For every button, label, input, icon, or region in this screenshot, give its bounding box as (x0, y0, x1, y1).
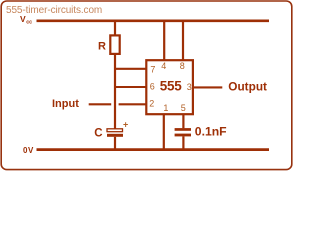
wire output from pin 3 (193, 86, 222, 88)
capacitor C bottom plate (107, 134, 123, 137)
svg-text:5: 5 (181, 103, 186, 113)
svg-text:cc: cc (26, 19, 32, 25)
wire pin 8 lead (182, 21, 184, 60)
capacitor C top plate (107, 129, 123, 132)
net Vcc label (20, 14, 32, 25)
svg-text:R: R (98, 40, 106, 52)
svg-text:Output: Output (228, 80, 267, 94)
wire input (89, 103, 112, 105)
wire capacitor C2 bottom lead (182, 136, 184, 149)
svg-text:555: 555 (160, 78, 182, 93)
wire 0V rail (37, 148, 270, 151)
wire vertical from R to capacitor C (114, 54, 116, 129)
wire to pin 6 (114, 86, 147, 88)
wire pin 4 lead (163, 21, 165, 60)
capacitor C2 bottom plate (175, 134, 191, 137)
svg-text:0V: 0V (23, 146, 34, 155)
svg-text:4: 4 (161, 61, 166, 71)
svg-text:Input: Input (52, 98, 79, 110)
svg-text:6: 6 (150, 82, 155, 92)
wire pin 5 lead to capacitor C2 (182, 114, 184, 128)
svg-text:3: 3 (187, 82, 192, 92)
resistor R (110, 35, 119, 54)
svg-text:C: C (94, 128, 102, 140)
svg-text:8: 8 (180, 61, 185, 71)
svg-text:+: + (123, 120, 128, 130)
capacitor C2 top plate (175, 128, 191, 131)
wire Vcc rail (37, 19, 270, 22)
op-amp U1 555 timer IC body (146, 60, 193, 114)
wire resistor top lead (114, 21, 116, 36)
wire to pin 7 (114, 68, 147, 70)
svg-text:0.1nF: 0.1nF (195, 125, 227, 139)
svg-text:V: V (20, 14, 26, 24)
wire to pin 2 (119, 103, 147, 105)
wire capacitor C bottom lead (114, 137, 116, 150)
wire pin 1 lead to ground rail (163, 114, 165, 149)
svg-text:2: 2 (149, 99, 154, 109)
svg-text:1: 1 (163, 103, 168, 113)
svg-text:7: 7 (150, 65, 155, 75)
